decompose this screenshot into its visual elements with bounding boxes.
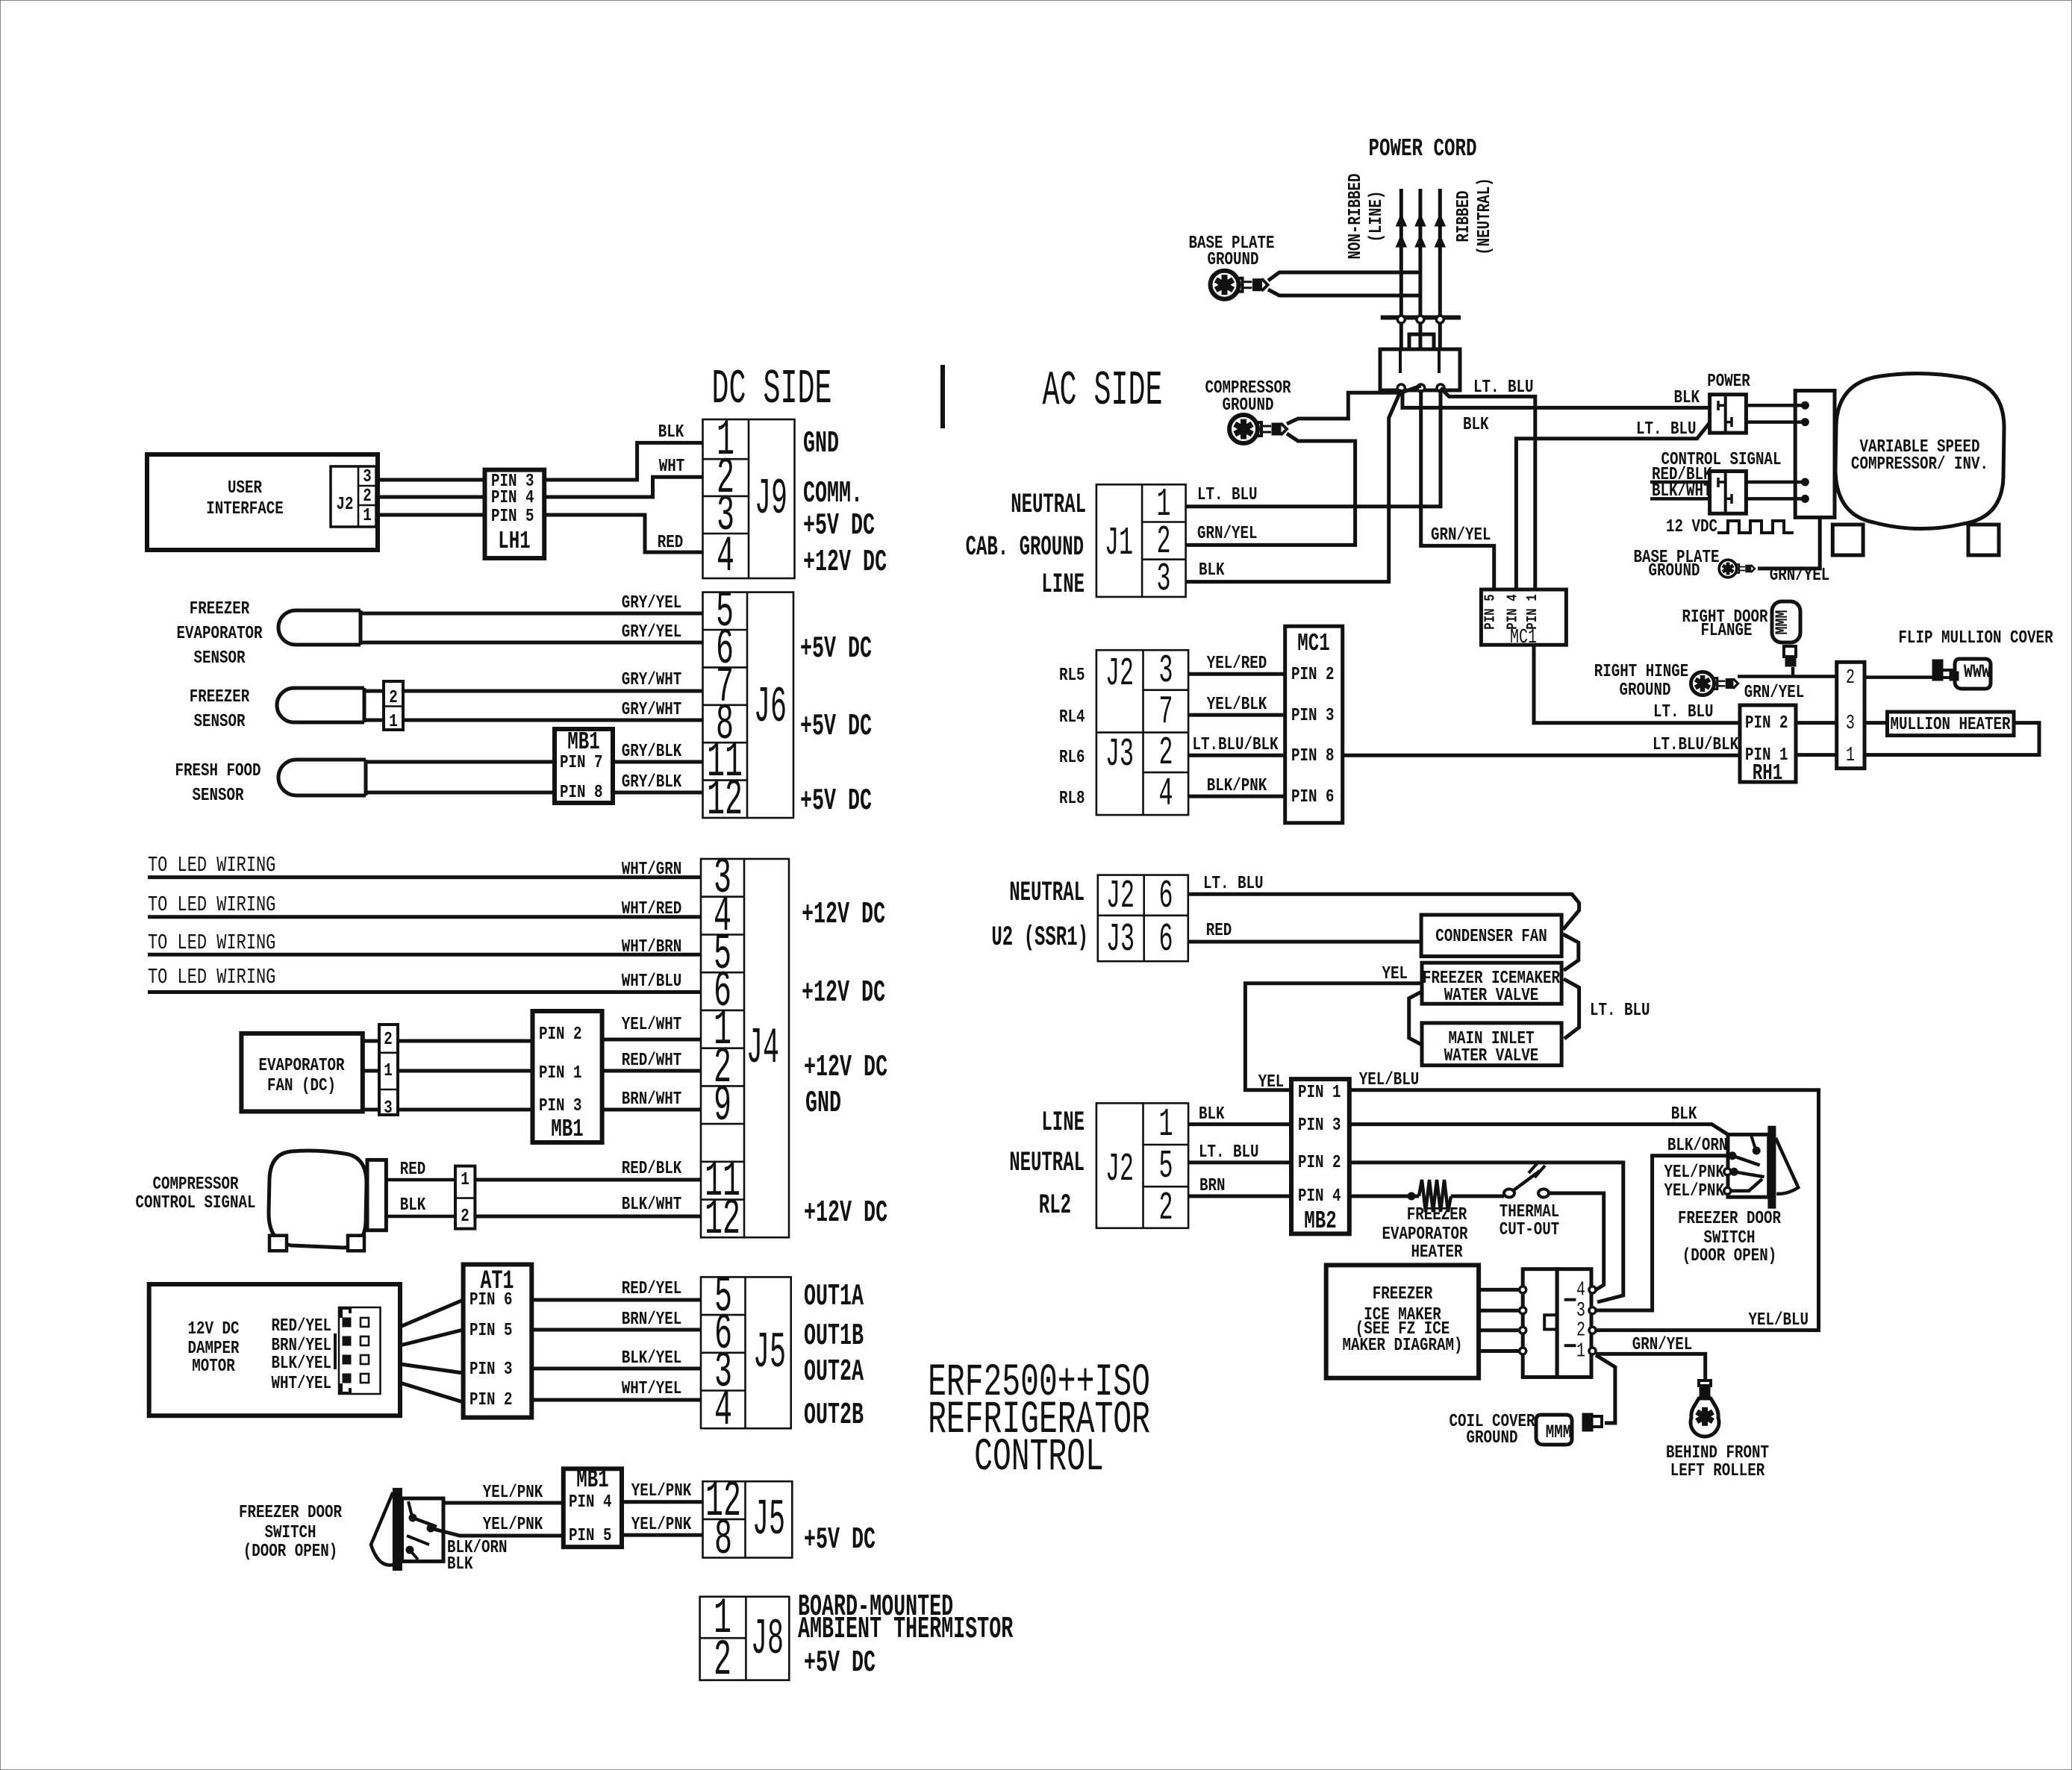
wires damper motor to AT1 [400,1300,464,1327]
svg-text:SENSOR: SENSOR [193,648,246,669]
svg-text:LT. BLU: LT. BLU [1199,1142,1259,1163]
svg-text:1: 1 [363,505,372,526]
svg-text:PIN 3: PIN 3 [1291,705,1335,726]
svg-text:RL5: RL5 [1059,665,1085,686]
svg-text:YEL/PNK: YEL/PNK [1664,1180,1724,1201]
svg-text:J5: J5 [752,1492,785,1549]
wire BRN/WHT MB1 to J4-9 [602,1108,701,1112]
wire BLK terminal 1 to power connector [1402,390,1710,407]
connector J8 [700,1597,790,1680]
wire YEL/BLU MB2 PIN 1 to icemaker connector 2 [1349,1090,1819,1330]
svg-text:J3: J3 [1105,733,1134,778]
svg-text:MMM: MMM [1773,610,1792,634]
svg-text:POWER CORD: POWER CORD [1368,135,1476,163]
freezer door switch (AC side) [1728,1134,1769,1197]
svg-text:9: 9 [714,1078,731,1135]
svg-text:RED/YEL: RED/YEL [622,1278,682,1299]
svg-text:8: 8 [714,1511,732,1569]
mullion connector 2/3/1 [1837,662,1865,768]
svg-text:RED: RED [400,1159,426,1180]
svg-text:BRN/WHT: BRN/WHT [622,1089,682,1110]
svg-text:PIN 2: PIN 2 [469,1389,513,1410]
svg-text:SWITCH: SWITCH [264,1522,316,1543]
svg-text:RIGHT HINGE: RIGHT HINGE [1594,661,1689,682]
svg-text:BRN: BRN [1199,1175,1226,1196]
svg-text:NON-RIBBED: NON-RIBBED [1345,173,1366,259]
svg-text:PIN 8: PIN 8 [560,782,603,803]
svg-text:J1: J1 [1105,522,1133,566]
svg-text:2: 2 [384,1029,393,1050]
wire RH1 PIN 2 to mullion connector 3 [1796,721,1837,725]
svg-text:LT. BLU: LT. BLU [1636,419,1697,440]
svg-text:YEL/WHT: YEL/WHT [622,1014,682,1035]
svg-text:2: 2 [1158,1186,1173,1231]
wire RH1 PIN 1 to mullion connector 1 [1796,753,1837,757]
svg-text:J2: J2 [1105,652,1134,697]
connector MB1 (door switch) [564,1469,622,1547]
svg-text:12 VDC: 12 VDC [1666,516,1717,537]
damper motor header connector [339,1307,381,1394]
wire GRY/WHT sensor to J6-8 [364,719,703,722]
svg-text:(DOOR OPEN): (DOOR OPEN) [243,1541,338,1562]
connector compressor control 1/2 [455,1166,475,1229]
wire J2-3 to LH1 PIN 3 [376,478,485,482]
svg-text:PIN 5: PIN 5 [1482,594,1499,629]
svg-text:PIN 4: PIN 4 [1298,1186,1341,1207]
svg-text:CONDENSER FAN: CONDENSER FAN [1435,926,1547,947]
wire BRN/YEL AT1 to J5-6 [531,1328,701,1332]
svg-text:3: 3 [384,1098,393,1119]
svg-text:GRY/WHT: GRY/WHT [622,669,682,690]
svg-text:J3: J3 [1106,918,1135,963]
svg-text:BLK: BLK [400,1195,426,1216]
wire GRY/BLK MB1 to J6-11 [613,760,703,764]
wire J2-1 to LH1 PIN 5 [376,513,485,517]
svg-text:PIN 5: PIN 5 [491,506,534,527]
connector J5 [701,1277,791,1428]
svg-text:J4: J4 [746,1021,779,1078]
svg-text:BLK/PNK: BLK/PNK [1207,775,1267,796]
svg-text:GROUND: GROUND [1207,249,1258,270]
svg-text:RL8: RL8 [1059,788,1085,809]
wire RED/BLK to J4-11 [475,1178,701,1182]
wire WHT/YEL AT1 to J5-4 [531,1398,701,1402]
svg-text:NEUTRAL: NEUTRAL [1011,490,1086,521]
wire GRN/YEL terminal 2 to MC1 PIN 5 [1421,390,1494,590]
svg-text:PIN 7: PIN 7 [560,752,603,773]
svg-text:COMPRESSOR/ INV.: COMPRESSOR/ INV. [1851,454,1988,475]
wire RED/WHT MB1 to J4-2 [602,1069,701,1073]
freezer evaporator heater (resistor) [1349,1195,1419,1198]
svg-text:5: 5 [1158,1145,1173,1189]
wire BLK/ORN freezer door switch to icemaker connector 3 [1596,1156,1728,1310]
svg-text:LEFT ROLLER: LEFT ROLLER [1670,1460,1765,1481]
connector LH1 [485,470,545,558]
wire LT.BLU/BLK J3-2 to MC1 PIN 8 [1188,754,1285,757]
svg-text:J5: J5 [753,1325,786,1382]
svg-text:FREEZER: FREEZER [1373,1283,1433,1304]
svg-text:YEL/BLU: YEL/BLU [1748,1310,1809,1330]
wire GRY/BLK MB1 to J6-12 [613,791,703,795]
wire BLK/YEL AT1 to J5-3 [531,1367,701,1371]
wire BRN J2-2 to MB2 PIN 4 [1188,1195,1291,1198]
svg-text:POWER: POWER [1707,371,1750,392]
svg-text:PIN 3: PIN 3 [1298,1115,1341,1136]
svg-text:FREEZER: FREEZER [1407,1204,1467,1225]
svg-text:YEL/RED: YEL/RED [1207,653,1267,674]
svg-text:(DOOR OPEN): (DOOR OPEN) [1682,1245,1777,1266]
connector evaporator fan 2/1/3 [363,1039,379,1043]
connector MB2 [1291,1079,1349,1233]
svg-text:PIN 5: PIN 5 [469,1320,513,1341]
svg-text:BRN/YEL: BRN/YEL [622,1309,682,1330]
svg-text:1: 1 [1846,745,1855,768]
svg-text:BLK/ORN: BLK/ORN [1667,1135,1728,1156]
svg-text:LT. BLU: LT. BLU [1197,484,1258,505]
svg-text:LINE: LINE [1041,1107,1085,1139]
connector MB1 (evaporator fan) [533,1011,602,1142]
svg-text:PIN 2: PIN 2 [539,1024,582,1045]
wire LT. BLU terminal block to J1-1 [1186,390,1441,507]
svg-text:CONTROL: CONTROL [974,1430,1104,1483]
wire LT. BLU MB2 PIN 2 to icemaker connector 4 [1349,1163,1623,1302]
svg-text:PIN 1: PIN 1 [1525,594,1541,629]
wire YEL/PNK MB1 to J5-12 [622,1500,703,1504]
svg-text:+5V DC: +5V DC [800,710,872,744]
svg-text:BLK/YEL: BLK/YEL [622,1348,682,1369]
svg-text:YEL/PNK: YEL/PNK [483,1514,543,1535]
connector J1 [1096,484,1186,597]
connector RH1 [1740,705,1796,782]
svg-text:LT. BLU: LT. BLU [1653,701,1714,722]
svg-text:GND: GND [803,427,839,461]
svg-text:MB1: MB1 [551,1115,583,1143]
svg-text:RED/BLK: RED/BLK [622,1158,682,1179]
wire GRY/WHT sensor to J6-7 [364,689,703,693]
wire base plate ground to power cord [1268,272,1420,281]
svg-text:CONTROL SIGNAL: CONTROL SIGNAL [135,1192,255,1213]
connector J6 [703,592,794,818]
svg-text:LT.BLU/BLK: LT.BLU/BLK [1192,734,1279,755]
wires control signal connector to inverter [1746,481,1802,484]
svg-text:YEL/PNK: YEL/PNK [631,1480,692,1501]
svg-text:12: 12 [707,772,743,829]
svg-text:PIN 6: PIN 6 [469,1289,513,1310]
svg-text:INTERFACE: INTERFACE [206,498,284,519]
wire WHT/GRN TO LED WIRING to J4 [148,875,701,879]
wire RED compressor to connector [386,1178,455,1182]
connector J2-6 / J3-6 [1098,875,1188,962]
svg-text:TO LED WIRING: TO LED WIRING [148,966,275,989]
svg-text:WHT/GRN: WHT/GRN [622,859,682,880]
svg-text:12: 12 [705,1191,740,1248]
svg-text:WHT/YEL: WHT/YEL [271,1373,331,1394]
svg-text:2: 2 [1158,731,1173,776]
svg-text:PIN 3: PIN 3 [469,1359,513,1380]
svg-text:J8: J8 [751,1612,784,1669]
wire YEL/PNK door switch to MB1 PIN 4 [443,1501,564,1505]
svg-text:BLK/WHT: BLK/WHT [622,1194,682,1215]
wire mullion heater loop to connector 1 [1865,723,2039,755]
svg-text:J6: J6 [754,680,787,737]
wire BLK LH1 to J9-1 [544,442,702,480]
svg-text:PIN 2: PIN 2 [1745,713,1788,734]
wire LT. BLU MC1 PIN 4 to power connector [1516,423,1709,590]
svg-text:GRN/YEL: GRN/YEL [1431,525,1491,545]
svg-text:FREEZER: FREEZER [190,598,250,619]
svg-text:SENSOR: SENSOR [192,785,244,806]
svg-text:2: 2 [1576,1319,1585,1342]
svg-text:GRN/YEL: GRN/YEL [1197,523,1258,544]
svg-text:SENSOR: SENSOR [193,711,246,732]
svg-text:RED/YEL: RED/YEL [271,1316,331,1336]
wire BLK MB2 PIN 3 to freezer door switch [1349,1125,1728,1135]
wire BLK/WHT to J4-12 [475,1215,701,1219]
svg-text:NEUTRAL: NEUTRAL [1009,878,1085,909]
svg-text:4: 4 [717,528,734,586]
svg-text:PIN 2: PIN 2 [1291,664,1335,685]
svg-text:AMBIENT THERMISTOR: AMBIENT THERMISTOR [798,1613,1013,1647]
control signal connector [1710,472,1747,514]
svg-text:3: 3 [1846,713,1855,736]
svg-text:BLK: BLK [1199,560,1225,581]
svg-text:1: 1 [389,711,398,732]
svg-text:EVAPORATOR: EVAPORATOR [176,623,263,644]
svg-text:TO LED WIRING: TO LED WIRING [148,854,275,878]
svg-text:2: 2 [1846,667,1855,690]
svg-text:RL4: RL4 [1059,707,1085,728]
svg-text:MAKER DIAGRAM): MAKER DIAGRAM) [1342,1335,1462,1356]
svg-text:BLK/WHT: BLK/WHT [1652,481,1712,501]
wire RED J3-6 to condenser fan [1188,940,1421,944]
svg-text:GRN/YEL: GRN/YEL [1744,682,1805,703]
wire fresh food sensor to MB1 PIN 7 [366,760,555,764]
wire BLK compressor to connector [386,1215,455,1219]
svg-text:AC SIDE: AC SIDE [1043,363,1163,418]
svg-text:HEATER: HEATER [1411,1242,1463,1263]
wire BLK terminal block to J1-3 [1186,390,1402,582]
wire fresh food sensor to MB1 PIN 8 [366,791,555,795]
svg-text:RL6: RL6 [1059,747,1085,768]
user interface box [147,454,378,550]
svg-text:YEL/BLU: YEL/BLU [1359,1069,1420,1090]
svg-text:BLK: BLK [658,422,684,442]
divider line between DC and AC side [940,365,945,428]
wire RED/YEL AT1 to J5-5 [531,1298,701,1302]
svg-text:LT.BLU/BLK: LT.BLU/BLK [1653,734,1739,755]
terminal block [1380,349,1460,390]
svg-text:J2: J2 [1105,1148,1134,1192]
svg-text:2: 2 [461,1206,469,1227]
wire GRN/YEL J1-2 to compressor ground [1186,434,1355,545]
thermal cut-out switch [1504,1189,1514,1198]
svg-text:PIN 3: PIN 3 [539,1095,582,1116]
svg-text:3: 3 [363,466,372,487]
svg-text:PIN 4: PIN 4 [1505,594,1521,630]
wire WHT/RED TO LED WIRING to J4 [148,915,701,919]
svg-text:DC SIDE: DC SIDE [712,362,832,416]
svg-text:WWW: WWW [1964,661,1991,683]
svg-text:CUT-OUT: CUT-OUT [1500,1219,1560,1240]
svg-text:MC1: MC1 [1297,629,1329,657]
wire RED/BLK to control signal connector [1650,481,1710,484]
svg-text:WHT/BLU: WHT/BLU [622,971,682,992]
svg-text:+5V DC: +5V DC [800,784,872,819]
svg-text:4: 4 [1158,772,1173,817]
power cord junction bar [1381,316,1461,320]
svg-text:YEL/BLK: YEL/BLK [1207,694,1267,715]
svg-text:2: 2 [363,486,372,507]
mullion heater box [1865,721,1888,725]
svg-text:GRY/YEL: GRY/YEL [622,622,682,642]
wire J2-2 to LH1 PIN 4 [376,495,485,499]
svg-text:12V DC: 12V DC [187,1319,239,1339]
svg-text:OUT2A: OUT2A [804,1355,864,1389]
svg-text:(NEUTRAL): (NEUTRAL) [1474,178,1495,255]
freezer icemaker water valve box [1422,963,1561,1004]
svg-text:YEL/PNK: YEL/PNK [483,1482,543,1503]
wire YEL/RED J2-3 to MC1 PIN 2 [1188,672,1285,676]
svg-text:FLIP MULLION COVER: FLIP MULLION COVER [1898,628,2053,648]
connector MC1 (left) [1285,626,1343,823]
svg-text:4: 4 [1576,1279,1585,1302]
svg-text:GRN/YEL: GRN/YEL [1770,565,1830,586]
svg-text:RH1: RH1 [1753,760,1783,786]
svg-text:PIN 1: PIN 1 [539,1063,582,1083]
svg-text:RED: RED [1206,920,1232,941]
svg-text:1: 1 [1576,1340,1585,1363]
svg-text:PIN 4: PIN 4 [569,1492,612,1513]
svg-text:RL2: RL2 [1039,1190,1071,1222]
svg-text:PIN 5: PIN 5 [569,1525,612,1546]
condenser fan box [1421,915,1561,957]
svg-text:GRY/YEL: GRY/YEL [622,592,682,613]
wire RED LH1 to J9-4 [544,515,702,552]
svg-text:MMM: MMM [1546,1422,1572,1443]
svg-text:EVAPORATOR: EVAPORATOR [258,1055,345,1076]
wires power connector to inverter [1746,404,1802,407]
wire BLK/PNK J3-4 to MC1 PIN 6 [1188,795,1285,798]
svg-text:BLK: BLK [447,1554,473,1574]
wire WHT LH1 to J9-2 [544,477,702,497]
ice maker connector [1523,1269,1557,1377]
inverter connector [1795,391,1835,518]
connector freezer sensor pins 2/1 [384,681,403,730]
svg-text:3: 3 [1158,649,1173,694]
wire WHT/BLU TO LED WIRING to J4 [148,990,701,994]
wire GRY/YEL sensor to J6-5 [361,612,703,616]
wire YEL/PNK door switch to MB1 PIN 5 [431,1528,564,1536]
connector J2 (line/neutral/RL2) [1096,1103,1188,1228]
svg-text:GRY/BLK: GRY/BLK [622,741,682,762]
svg-text:FREEZER: FREEZER [190,687,250,707]
svg-text:RIBBED: RIBBED [1453,190,1474,242]
wire YEL to icemaker water valve and MB2 PIN 1 [1245,983,1422,1090]
svg-text:6: 6 [1158,875,1173,919]
svg-text:FLANGE: FLANGE [1700,620,1752,641]
svg-text:MOTOR: MOTOR [192,1356,235,1377]
connector AT1 [464,1265,532,1418]
svg-text:FREEZER DOOR: FREEZER DOOR [239,1502,343,1523]
svg-text:LT. BLU: LT. BLU [1203,873,1264,894]
svg-text:+5V DC: +5V DC [803,509,875,543]
svg-text:J9: J9 [755,472,787,528]
svg-text:+12V DC: +12V DC [804,1051,887,1085]
connector MB1 (sensor) [555,729,613,803]
svg-text:WHT/BRN: WHT/BRN [622,936,682,957]
connector J9 [703,419,795,578]
wire mullion connector to flip mullion cover [1865,675,1941,679]
wire GRY/YEL sensor to J6-6 [361,641,703,645]
wire LT. BLU J2-6 to water valve harness [1188,894,1579,929]
wire LT. BLU MC1 to RH1 PIN 2 [1534,645,1740,723]
svg-text:MB1: MB1 [576,1466,608,1494]
power cord wires with arrows [1399,189,1403,349]
svg-text:FRESH FOOD: FRESH FOOD [175,760,260,781]
svg-text:BLK: BLK [1671,1104,1697,1125]
svg-text:2: 2 [714,1632,731,1689]
svg-text:J2: J2 [336,494,353,515]
svg-text:LH1: LH1 [498,527,530,555]
svg-text:COMPRESSOR: COMPRESSOR [152,1174,239,1195]
valve left bracket [1409,992,1422,1045]
svg-text:GND: GND [805,1086,841,1121]
12V DC damper motor box [149,1284,400,1416]
svg-text:GRN/YEL: GRN/YEL [1632,1334,1693,1355]
svg-text:WATER VALVE: WATER VALVE [1444,1045,1539,1066]
svg-text:OUT1A: OUT1A [804,1280,864,1314]
svg-text:YEL: YEL [1382,963,1408,984]
svg-text:GRY/BLK: GRY/BLK [622,772,682,792]
svg-text:PIN 8: PIN 8 [1291,745,1335,766]
wire GRN/YEL icemaker connector 1 to roller ground [1596,1354,1706,1382]
wire icemaker connector 1 to coil cover ground [1596,1355,1615,1423]
wire WHT/BRN TO LED WIRING to J4 [148,953,701,957]
svg-text:3: 3 [1156,557,1170,602]
svg-text:+5V DC: +5V DC [804,1523,876,1557]
wire right door flange to ground wire [1791,667,1795,677]
wire YEL/BLK J2-7 to MC1 PIN 3 [1188,713,1285,717]
wire GRN/YEL inverter to base plate ground [1758,517,1820,569]
svg-text:+5V DC: +5V DC [804,1646,876,1680]
svg-text:1: 1 [384,1060,393,1081]
svg-text:BLK/YEL: BLK/YEL [271,1353,331,1374]
wire compressor ground to terminal 2 [1287,386,1421,424]
connector J2/J3 (relay outputs) [1096,650,1188,815]
svg-text:7: 7 [1158,690,1173,735]
connector J2 (user interface) [331,466,376,527]
wire LT. BLU J2-5 to MB2 PIN 2 [1188,1160,1291,1164]
svg-text:CAB. GROUND: CAB. GROUND [966,532,1084,563]
flip mullion cover ground clip [1932,660,1943,681]
main inlet water valve box [1422,1023,1561,1066]
svg-text:TO LED WIRING: TO LED WIRING [148,893,275,917]
evaporator fan box [241,1033,362,1112]
svg-text:+12V DC: +12V DC [804,1196,887,1230]
svg-text:TO LED WIRING: TO LED WIRING [148,931,275,955]
svg-text:WHT: WHT [659,456,685,477]
svg-text:GROUND: GROUND [1466,1427,1517,1448]
wire YEL/WHT MB1 to J4-1 [602,1038,701,1042]
svg-text:OUT2B: OUT2B [804,1398,864,1433]
freezer ice maker box [1326,1265,1479,1377]
svg-text:FAN (DC): FAN (DC) [267,1075,336,1096]
svg-text:PIN 2: PIN 2 [1298,1152,1341,1173]
svg-text:+5V DC: +5V DC [800,632,872,666]
svg-text:BLK: BLK [1199,1104,1225,1125]
wire thermal cut-out to icemaker connector 4 [1549,1193,1604,1290]
svg-text:LT. BLU: LT. BLU [1590,1000,1650,1021]
